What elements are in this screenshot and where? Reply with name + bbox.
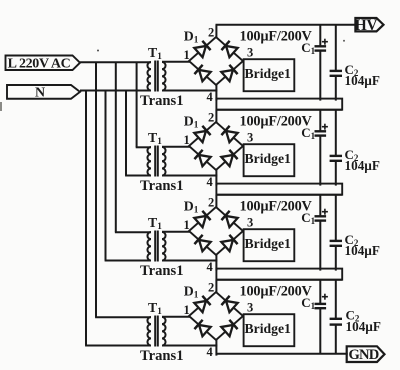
diode bottom-left of bridge (stage 4) — [194, 320, 210, 336]
svg-text:Bridge1: Bridge1 — [245, 236, 292, 251]
wire positive rail (stage 3) — [216, 194, 343, 196]
svg-text:1: 1 — [184, 218, 190, 232]
svg-text:4: 4 — [207, 345, 214, 359]
diode top-left of bridge (stage 4) — [194, 296, 210, 312]
svg-text:4: 4 — [207, 175, 214, 189]
diode bridge D1 diamond (stage 4) — [189, 292, 243, 340]
diode bottom-right of bridge (stage 4) — [221, 320, 237, 336]
diode top-right of bridge (stage 2) — [221, 126, 237, 142]
bridge body box Bridge1 (stage 2) — [244, 144, 295, 176]
capacitor C1 100uF/200V (stage 4) — [315, 280, 327, 354]
svg-text:Bridge1: Bridge1 — [245, 66, 292, 81]
power flag L 220V AC — [6, 56, 81, 72]
wire secondary bottom under bridge to pin 4 node (stage 3) — [162, 260, 217, 262]
wire positive rail (stage 4) — [216, 279, 343, 281]
diode bottom-left of bridge (stage 1) — [194, 65, 210, 81]
svg-text:D1: D1 — [184, 28, 199, 45]
wire positive rail (stage 2) — [216, 109, 343, 111]
svg-text:1: 1 — [184, 303, 190, 317]
transformer T1 (stage 4) — [147, 316, 165, 347]
svg-text:100µF/200V: 100µF/200V — [240, 199, 313, 215]
diode bottom-right of bridge (stage 3) — [221, 235, 237, 251]
plus polarity mark of C1 (stage 3) — [322, 209, 328, 215]
svg-text:104µF: 104µF — [345, 158, 380, 173]
wire negative rail to GND (stage 4) — [216, 353, 348, 355]
svg-text:N: N — [35, 85, 45, 100]
diode bridge D1 diamond (stage 3) — [189, 207, 243, 255]
svg-text:2: 2 — [208, 195, 214, 209]
wire bridge pin 4 down to negative rail (stage 4) — [215, 340, 217, 356]
svg-text:Trans1: Trans1 — [140, 93, 184, 109]
diode top-right of bridge (stage 4) — [221, 296, 237, 312]
wire N bus drop to Trans1 stage4 primary bottom — [85, 91, 151, 346]
wire secondary top to bridge pin 1 (stage 1) — [162, 61, 190, 63]
svg-text:2: 2 — [208, 280, 214, 294]
wire secondary bottom under bridge to pin 4 node (stage 4) — [162, 345, 217, 347]
diode bridge D1 diamond (stage 2) — [189, 122, 243, 170]
diode bottom-right of bridge (stage 2) — [221, 150, 237, 166]
svg-text:Bridge1: Bridge1 — [245, 321, 292, 336]
bridge body box Bridge1 (stage 1) — [244, 59, 295, 91]
plus polarity mark of C1 (stage 1) — [322, 39, 328, 45]
wire bridge pin 2 up to positive rail (stage 4) — [215, 280, 217, 293]
wire bridge pin 2 up to positive rail (stage 1) — [215, 25, 217, 38]
inter-stage bus bar (stage 1 negative to stage 2 positive) — [216, 99, 342, 110]
wire secondary top to bridge pin 1 (stage 4) — [162, 316, 190, 318]
transformer T1 (stage 1) — [147, 61, 165, 92]
wire bridge pin 4 down to negative rail (stage 1) — [215, 85, 217, 101]
svg-text:T1: T1 — [148, 130, 162, 147]
wire L line to T1 primary top — [80, 61, 151, 63]
wire L bus drop to Trans1 stage4 primary top — [95, 62, 151, 317]
capacitor C1 100uF/200V (stage 1) — [315, 25, 327, 101]
scan speck — [97, 50, 99, 52]
wire bridge pin 4 down to negative rail (stage 2) — [215, 170, 217, 186]
diode bottom-left of bridge (stage 2) — [194, 150, 210, 166]
svg-text:3: 3 — [247, 46, 253, 60]
svg-text:Trans1: Trans1 — [140, 348, 184, 364]
svg-text:104µF: 104µF — [345, 73, 380, 88]
diode top-left of bridge (stage 2) — [194, 126, 210, 142]
diode top-right of bridge (stage 3) — [221, 211, 237, 227]
scan speck — [0, 102, 2, 111]
svg-text:Trans1: Trans1 — [140, 178, 184, 194]
svg-text:3: 3 — [247, 216, 253, 230]
diode top-left of bridge (stage 3) — [194, 211, 210, 227]
svg-text:100µF/200V: 100µF/200V — [240, 284, 313, 300]
transformer T1 (stage 2) — [147, 146, 165, 177]
svg-text:3: 3 — [247, 131, 253, 145]
wire N line to T1 primary bottom — [80, 90, 151, 92]
capacitor C1 100uF/200V (stage 2) — [315, 110, 327, 186]
capacitor C1 100uF/200V (stage 3) — [315, 195, 327, 271]
capacitor C2 104uF (stage 2) — [330, 110, 342, 186]
svg-text:T1: T1 — [148, 215, 162, 232]
capacitor C2 104uF (stage 4) — [330, 280, 342, 354]
plus polarity mark of C1 (stage 2) — [322, 124, 328, 130]
scan speck — [343, 40, 345, 42]
svg-text:T1: T1 — [148, 45, 162, 62]
wire secondary top to bridge pin 1 (stage 2) — [162, 146, 190, 148]
power flag HV — [355, 17, 384, 34]
svg-text:D1: D1 — [184, 113, 199, 130]
svg-text:104µF: 104µF — [346, 319, 381, 334]
svg-text:1: 1 — [184, 48, 190, 62]
svg-text:Trans1: Trans1 — [140, 263, 184, 279]
svg-text:2: 2 — [208, 25, 214, 39]
svg-text:GND: GND — [348, 347, 378, 363]
svg-text:100µF/200V: 100µF/200V — [240, 29, 313, 45]
power flag N — [7, 85, 80, 100]
svg-text:Bridge1: Bridge1 — [245, 151, 292, 166]
svg-text:D1: D1 — [184, 198, 199, 215]
wire N bus drop to Trans1 stage2 primary bottom — [125, 91, 151, 176]
svg-text:HV: HV — [355, 17, 378, 34]
plus polarity mark of C1 (stage 4) — [322, 294, 328, 300]
diode bottom-right of bridge (stage 1) — [221, 65, 237, 81]
diode bridge D1 diamond (stage 1) — [189, 37, 243, 85]
wire N bus drop to Trans1 stage3 primary bottom — [105, 91, 151, 261]
diode bottom-left of bridge (stage 3) — [194, 235, 210, 251]
wire L bus drop to Trans1 stage3 primary top — [115, 62, 151, 232]
power flag GND — [347, 346, 385, 363]
inter-stage bus bar (stage 2 negative to stage 3 positive) — [216, 184, 342, 195]
wire bridge pin 4 down to negative rail (stage 3) — [215, 255, 217, 271]
svg-text:T1: T1 — [148, 300, 162, 317]
bridge body box Bridge1 (stage 3) — [244, 229, 295, 261]
svg-text:1: 1 — [184, 133, 190, 147]
transformer T1 (stage 3) — [147, 231, 165, 262]
wire bridge pin 2 up to positive rail (stage 3) — [215, 195, 217, 208]
wire bridge pin 2 up to positive rail (stage 2) — [215, 110, 217, 123]
wire secondary bottom under bridge to pin 4 node (stage 1) — [162, 90, 217, 92]
inter-stage bus bar (stage 3 negative to stage 4 positive) — [216, 269, 342, 280]
svg-text:D1: D1 — [184, 283, 199, 300]
diode top-right of bridge (stage 1) — [221, 41, 237, 57]
svg-text:2: 2 — [208, 110, 214, 124]
bridge body box Bridge1 (stage 4) — [244, 314, 295, 346]
wire secondary top to bridge pin 1 (stage 3) — [162, 231, 190, 233]
capacitor C2 104uF (stage 1) — [330, 25, 342, 101]
svg-text:4: 4 — [207, 260, 214, 274]
wire L bus drop to Trans1 stage2 primary top — [136, 62, 151, 147]
svg-text:100µF/200V: 100µF/200V — [240, 114, 313, 130]
svg-text:104µF: 104µF — [345, 243, 380, 258]
diode top-left of bridge (stage 1) — [194, 41, 210, 57]
svg-text:4: 4 — [207, 90, 214, 104]
wire secondary bottom under bridge to pin 4 node (stage 2) — [162, 175, 217, 177]
wire positive rail (stage 1) — [216, 24, 356, 26]
capacitor C2 104uF (stage 3) — [330, 195, 342, 271]
svg-text:L 220V AC: L 220V AC — [8, 56, 71, 71]
svg-text:3: 3 — [247, 301, 253, 315]
